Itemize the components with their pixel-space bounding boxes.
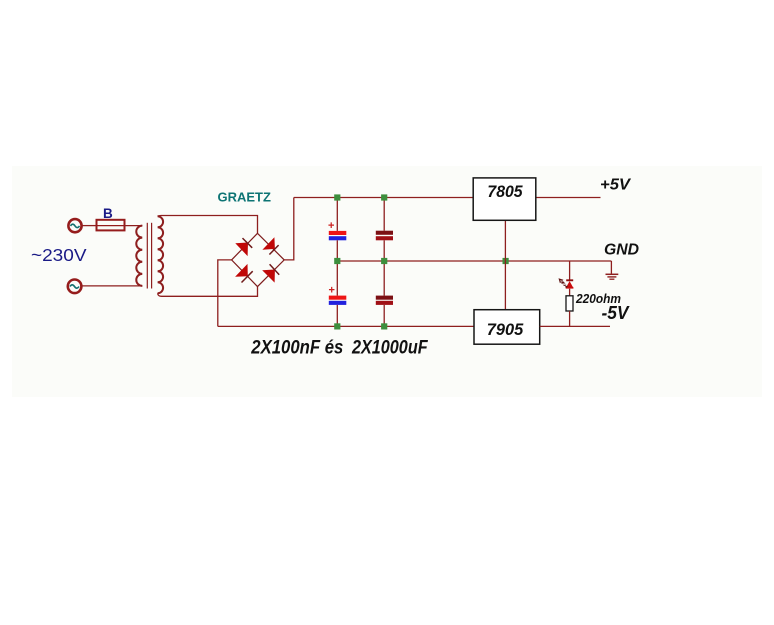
- junction mid rail / regulators: [503, 258, 509, 264]
- junction bottom rail / C4: [381, 323, 387, 329]
- regulator U2 7905: [474, 310, 540, 345]
- wire bridge left vertex to bottom rail: [218, 260, 232, 327]
- svg-text:+: +: [328, 220, 334, 232]
- wire mid rail to LED: [569, 261, 571, 280]
- svg-text:7905: 7905: [487, 321, 524, 339]
- wire 7905 output to -5V: [540, 325, 610, 327]
- wire bridge right vertex to top rail: [284, 198, 294, 260]
- junction top rail / C3: [381, 194, 387, 200]
- junction top rail / C1: [334, 194, 340, 200]
- AC source V1 (top terminal): [68, 219, 81, 232]
- junction bottom rail / C2: [334, 323, 340, 329]
- ground symbol: [606, 274, 619, 279]
- svg-text:2X1000uF: 2X1000uF: [351, 337, 428, 359]
- fuse B: [97, 220, 125, 231]
- svg-text:2X100nF és: 2X100nF és: [250, 337, 343, 359]
- capacitor C4 1000uF (lower): [376, 261, 393, 326]
- svg-text:~230V: ~230V: [31, 245, 87, 265]
- wire fuse to transformer primary: [125, 225, 143, 227]
- regulator U1 7805: [473, 178, 536, 220]
- diode D1 (top-left): [235, 238, 252, 256]
- LED D5: [566, 280, 574, 288]
- wire 7805 GND pin down through mid rail to 7905: [504, 220, 506, 309]
- svg-text:B: B: [103, 206, 113, 221]
- svg-text:+: +: [329, 285, 335, 297]
- diode D4 (bottom-right): [262, 264, 279, 282]
- wire top rail: [294, 197, 473, 199]
- svg-text:7805: 7805: [487, 183, 523, 201]
- wire resistor to -5V rail: [569, 311, 571, 326]
- mouse cursor arrow: [559, 278, 568, 287]
- junction mid rail / C3: [381, 258, 387, 264]
- svg-text:-5V: -5V: [602, 302, 631, 323]
- capacitor C1 100nF electrolytic (upper): [328, 198, 346, 262]
- bridge rectifier diamond outline: [232, 233, 285, 286]
- wire top source to fuse: [82, 225, 97, 227]
- svg-text:GRAETZ: GRAETZ: [218, 190, 271, 205]
- wire secondary bottom to bridge bottom vertex: [158, 287, 258, 297]
- wire LED to resistor: [569, 289, 571, 296]
- resistor R1 220ohm: [566, 296, 573, 311]
- junction mid rail / C1: [334, 258, 340, 264]
- capacitor C2 100nF electrolytic (lower): [329, 261, 347, 326]
- diode D2 (top-right): [262, 237, 278, 254]
- transformer T1 secondary winding: [158, 216, 164, 293]
- transformer T1 primary winding: [136, 226, 142, 286]
- wire bottom rail: [218, 325, 474, 327]
- svg-text:GND: GND: [604, 242, 639, 259]
- wire mid rail to ground symbol: [610, 261, 612, 274]
- transformer core: [147, 223, 151, 289]
- svg-text:+5V: +5V: [600, 177, 631, 194]
- diode D3 (bottom-left): [235, 264, 253, 283]
- wire 7805 output to +5V: [536, 197, 601, 199]
- wire secondary top to bridge top vertex: [158, 216, 258, 234]
- wire bottom source to transformer primary: [82, 285, 143, 287]
- wire middle GND rail: [337, 260, 611, 262]
- capacitor C3 1000uF (upper): [376, 198, 393, 262]
- AC source V1 (bottom terminal): [68, 280, 82, 294]
